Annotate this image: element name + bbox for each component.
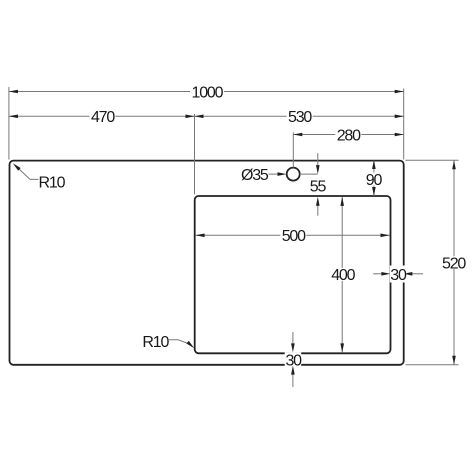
R10 leader sink bottom-left corner xyxy=(169,340,188,344)
svg-text:520: 520 xyxy=(442,256,466,273)
svg-text:30: 30 xyxy=(390,267,407,284)
dimension 30 bottom (sink bottom to counter bottom) xyxy=(285,352,302,366)
svg-text:400: 400 xyxy=(331,267,355,284)
dimension 500 line (inside sink) xyxy=(196,234,390,236)
dimension 520 line (right side) xyxy=(453,160,455,365)
sink cutout (500x400) xyxy=(195,196,391,353)
svg-text:R10: R10 xyxy=(39,174,66,191)
extension line tap hole centre (drop to circle) xyxy=(292,132,294,167)
svg-text:Ø35: Ø35 xyxy=(241,167,269,184)
svg-text:1000: 1000 xyxy=(192,84,224,101)
dimension 1000 line xyxy=(9,91,404,93)
Ø35 leader arrow xyxy=(269,173,281,175)
tap hole circle Ø35 xyxy=(287,168,300,181)
extension line top right (for 520) xyxy=(406,159,459,161)
dimension 470 line xyxy=(9,115,195,117)
R10 leader top-left corner xyxy=(19,169,39,180)
svg-text:30: 30 xyxy=(285,353,302,370)
extension line left (x=8.9) xyxy=(8,87,10,160)
svg-text:500: 500 xyxy=(282,228,306,245)
svg-text:470: 470 xyxy=(91,109,115,126)
dimension 530 line xyxy=(195,115,404,117)
dimension 55 upper arrow (outside, pointing down to circle centreline) xyxy=(317,153,319,168)
svg-text:55: 55 xyxy=(310,179,327,196)
extension line bottom right (for 520) xyxy=(406,364,459,366)
dimension 90 line (counter top to sink top) xyxy=(373,161,375,197)
svg-text:R10: R10 xyxy=(142,334,169,351)
svg-text:530: 530 xyxy=(288,109,312,126)
extension line right (x=403.7) xyxy=(403,89,405,160)
dimension 400 line (inside sink, vertical) xyxy=(341,197,343,353)
dimension 280 line xyxy=(293,134,403,136)
extension line middle (sink left, x=194.5) xyxy=(194,114,196,194)
dimension 30 right (sink edge to counter edge) xyxy=(373,273,384,275)
extension line circle centre horizontal (for 55) xyxy=(300,173,318,175)
svg-text:280: 280 xyxy=(337,128,361,145)
counter outline (1000x520 worktop) xyxy=(10,161,404,365)
svg-text:90: 90 xyxy=(366,172,383,189)
dimension 55 lower arrow (outside, pointing up to sink top edge) xyxy=(317,202,319,216)
